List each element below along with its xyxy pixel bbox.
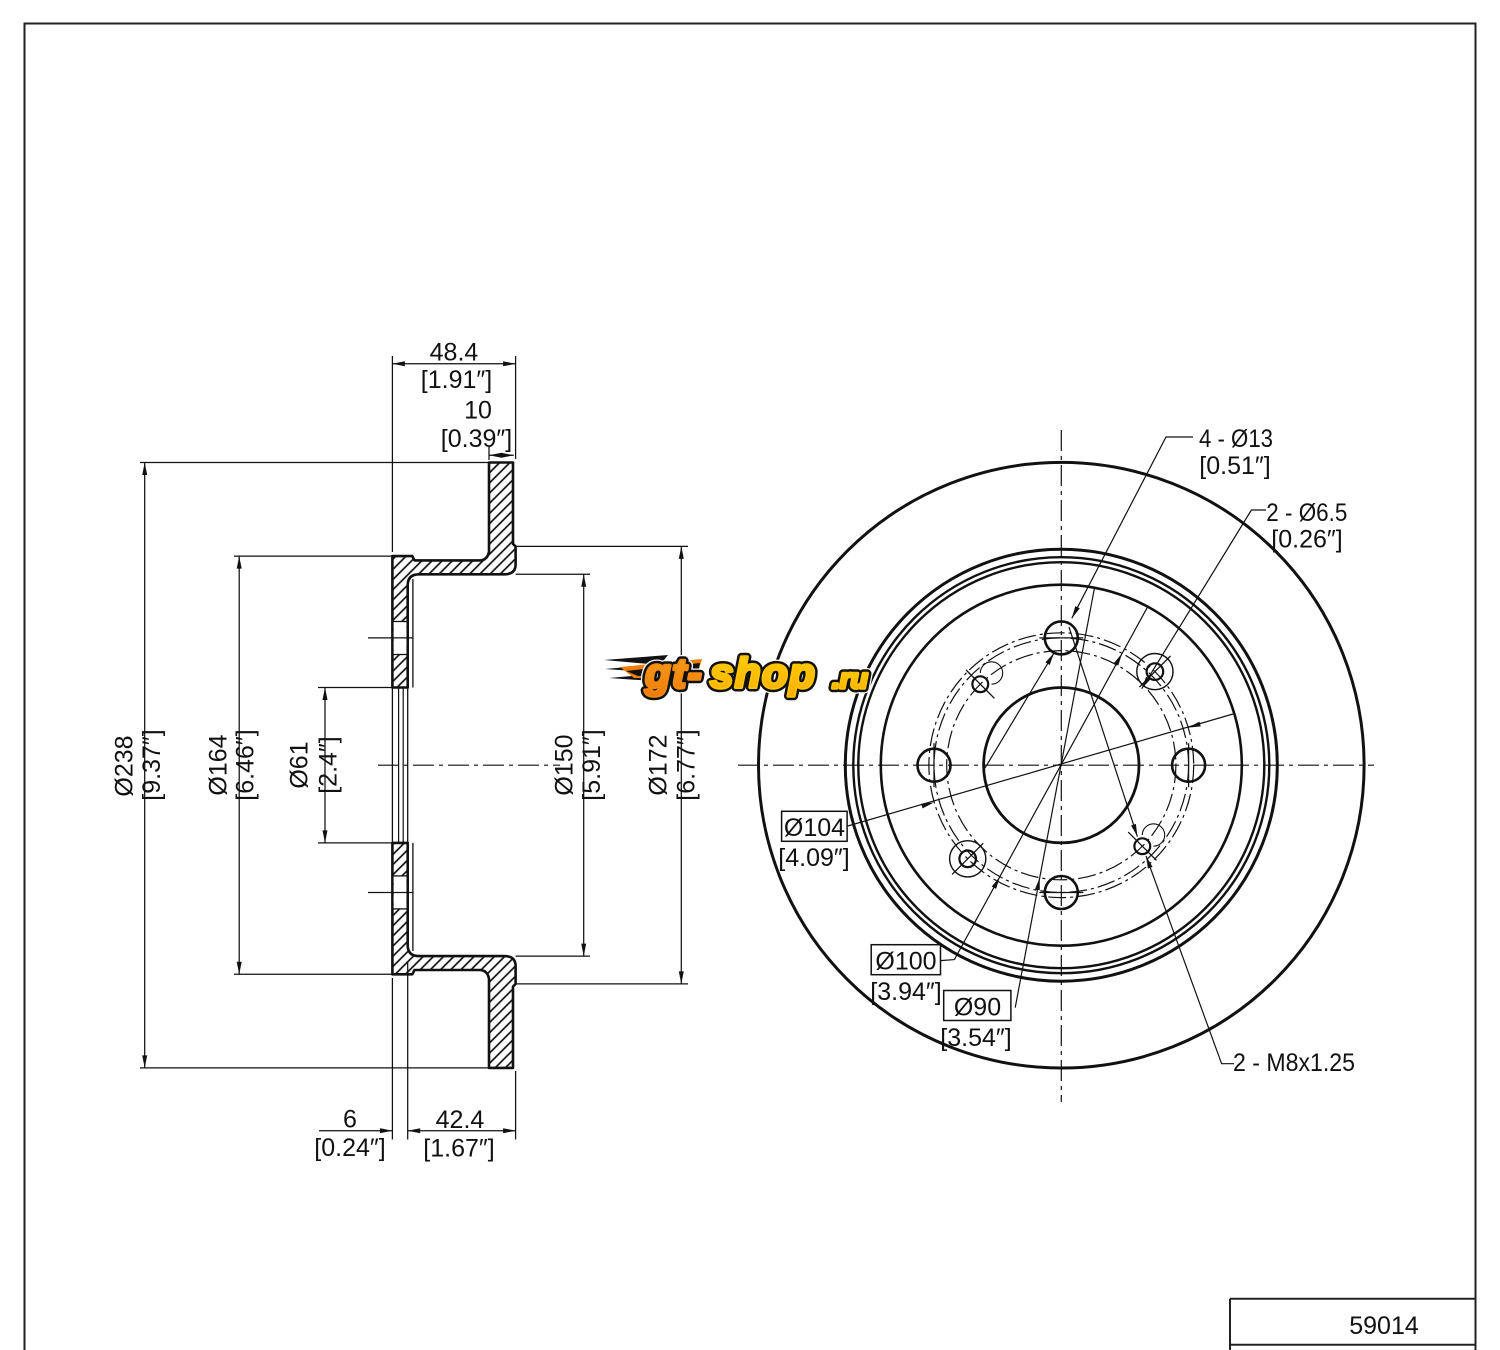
screw hole Ø6.5 SW <box>959 851 976 868</box>
leader 2-M8x1.25 <box>1146 856 1234 1064</box>
svg-text:10: 10 <box>464 397 492 425</box>
lug hole Ø13 left <box>918 749 951 782</box>
svg-text:[6.46″]: [6.46″] <box>231 729 259 800</box>
hub fillet edge lines <box>412 579 414 688</box>
PCD circle Ø100 (dash-dot) <box>934 638 1189 893</box>
lug hole Ø13 right <box>1172 749 1205 782</box>
PCD circle Ø104 (dash-dot) <box>929 633 1194 898</box>
dimension 48.4 <box>392 363 515 365</box>
svg-text:[3.54″]: [3.54″] <box>940 1024 1011 1052</box>
dimension line Ø104 <box>848 714 1233 826</box>
bore silhouette lines <box>398 688 400 843</box>
svg-text:Ø104: Ø104 <box>784 814 845 842</box>
svg-text:[1.91″]: [1.91″] <box>421 366 492 394</box>
svg-text:6: 6 <box>343 1106 357 1134</box>
extension lines width dims bottom <box>391 978 393 1140</box>
dimension 42.4 <box>408 1130 516 1132</box>
svg-text:[0.26″]: [0.26″] <box>1271 526 1342 554</box>
circle friction ring inner edge <box>845 549 1277 981</box>
svg-text:Ø238: Ø238 <box>111 735 139 796</box>
svg-text:59014: 59014 <box>1349 1312 1419 1340</box>
svg-text:48.4: 48.4 <box>430 339 479 367</box>
extension lines Ø238 <box>140 462 489 464</box>
svg-text:Ø90: Ø90 <box>954 994 1001 1022</box>
boxed label Ø90 <box>944 991 1011 1021</box>
svg-text:shop: shop <box>710 650 816 697</box>
boxed label Ø104 <box>782 811 848 841</box>
title block <box>1230 1298 1476 1300</box>
watermark logo gt-shop.ru <box>604 650 868 697</box>
bolt hole gap in plate (top) <box>394 622 407 655</box>
short leader to Ø90 circle <box>985 653 1054 768</box>
svg-text:Ø61: Ø61 <box>286 741 314 788</box>
dimension Ø164 <box>238 556 240 974</box>
threaded hole M8 NW <box>972 676 988 692</box>
circle hat outer 2 <box>858 562 1264 968</box>
svg-text:Ø164: Ø164 <box>205 734 233 795</box>
centerline horizontal axis (right view) <box>738 764 1374 766</box>
centerline horizontal axis (left view) <box>378 764 560 766</box>
svg-text:.ru: .ru <box>832 663 868 694</box>
svg-text:2 - M8x1.25: 2 - M8x1.25 <box>1233 1049 1355 1077</box>
lug hole Ø13 bottom <box>1045 876 1078 909</box>
leader 2-Ø6.5 <box>1142 510 1266 689</box>
extension lines Ø172 <box>516 545 688 547</box>
dimension 10 <box>489 454 514 456</box>
dimension Ø172 <box>680 546 682 984</box>
threaded hole M8 SE <box>1134 838 1150 854</box>
circle hat face edge <box>881 585 1242 946</box>
svg-text:Ø100: Ø100 <box>875 948 936 976</box>
svg-text:Ø172: Ø172 <box>645 734 673 795</box>
extension lines Ø61 <box>318 687 392 689</box>
bolt hole centermark ticks <box>368 637 413 639</box>
extension lines Ø164 <box>234 555 392 557</box>
svg-text:[0.24″]: [0.24″] <box>314 1134 385 1162</box>
section bottom half (hatched) <box>392 843 515 1068</box>
extension lines Ø150 <box>516 573 590 575</box>
bolt hole gap in plate (bottom) <box>394 876 407 909</box>
outer circle Ø238 <box>759 462 1365 1068</box>
boxed label Ø100 <box>871 945 940 975</box>
svg-text:[5.91″]: [5.91″] <box>578 729 606 800</box>
leader 4-Ø13 <box>1072 437 1193 618</box>
circle hat outer 1 <box>853 557 1269 973</box>
svg-text:[6.77″]: [6.77″] <box>673 729 701 800</box>
svg-text:[2.4″]: [2.4″] <box>315 736 343 794</box>
screw hole Ø6.5 NE <box>1147 663 1164 680</box>
svg-text:42.4: 42.4 <box>436 1106 485 1134</box>
dimension Ø150 <box>583 574 585 956</box>
svg-text:[1.67″]: [1.67″] <box>423 1135 494 1163</box>
extension lines width dims top <box>391 356 393 552</box>
svg-text:[0.39″]: [0.39″] <box>441 425 512 453</box>
PCD circle Ø90 (dash-dot) <box>947 651 1176 880</box>
svg-text:[9.37″]: [9.37″] <box>138 729 166 800</box>
dimension line Ø90 <box>1015 588 1094 1008</box>
svg-text:[4.09″]: [4.09″] <box>778 844 849 872</box>
dimension Ø238 <box>144 463 146 1068</box>
svg-text:4 - Ø13: 4 - Ø13 <box>1199 425 1273 453</box>
svg-text:[0.51″]: [0.51″] <box>1199 452 1270 480</box>
lug hole Ø13 top <box>1045 621 1078 654</box>
svg-text:[3.94″]: [3.94″] <box>870 978 941 1006</box>
leader through top hole to M8 SE <box>1069 627 1137 837</box>
svg-text:gt-: gt- <box>644 650 703 697</box>
section top half (hatched) <box>392 463 515 688</box>
dimension line Ø100 <box>941 607 1148 961</box>
center bore Ø61 <box>984 688 1139 843</box>
svg-text:Ø150: Ø150 <box>551 734 579 795</box>
svg-text:2 - Ø6.5: 2 - Ø6.5 <box>1266 499 1347 527</box>
vertical centerline of disc <box>1060 430 1062 1102</box>
dimension Ø61 <box>324 688 326 843</box>
dimension 6 <box>319 1130 392 1132</box>
